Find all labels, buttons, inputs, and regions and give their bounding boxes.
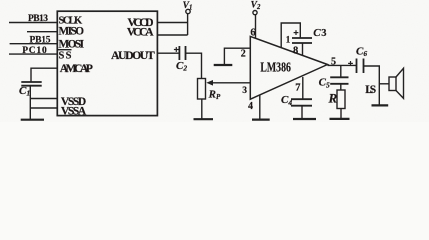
loudspeaker LS [389,77,396,91]
svg-text:1: 1 [286,35,291,45]
svg-text:C: C [313,27,321,39]
op-amp LM386 triangle [250,36,327,99]
IC U1 box [57,11,157,115]
wire VCCD [157,22,187,24]
svg-text:LS: LS [365,84,376,96]
wire pin 7 to C4 [302,77,304,99]
wire AUDOUT to C2 [157,52,179,54]
wire R to ground [340,109,342,119]
svg-text:3: 3 [242,86,247,96]
potentiometer Rp body [198,79,206,100]
terminal V1 [186,9,190,13]
svg-text:AUDOUT: AUDOUT [111,48,155,62]
plus sign of C3 [294,30,299,35]
svg-text:MISO: MISO [59,25,85,37]
svg-text:AMCAP: AMCAP [60,62,93,75]
wire C1 bottom to ground [29,86,31,120]
svg-text:4: 4 [248,101,253,112]
ground (pin 4) [252,118,270,120]
wire PB13 to SCLK [9,22,57,24]
capacitor C5 [330,77,348,84]
svg-text:R: R [328,91,338,106]
wire PB15 to MOSI [10,43,58,45]
wire output pin 5 [328,64,357,66]
capacitor C2 [179,46,185,60]
terminal V2 [253,11,257,15]
capacitor C4 [291,99,312,106]
ground (speaker) [372,104,389,106]
wire junction to C5 [340,65,342,77]
resistor R body [337,90,345,109]
SS overline [57,49,71,51]
wire C2 to Rp [186,53,202,78]
capacitor C1 [21,82,41,86]
svg-text:8: 8 [293,46,298,57]
svg-text:VSSA: VSSA [61,105,87,117]
capacitor C6 [357,59,364,74]
ground (C4) [293,118,316,120]
svg-text:VCCA: VCCA [127,27,154,39]
wire stub to speaker [379,83,389,85]
ground (R) [330,118,350,120]
svg-text:3: 3 [321,28,326,39]
wire to V1 terminal [187,14,189,35]
wire pin 8 to C3 [302,43,304,56]
wire PC10 to SS [9,53,57,55]
wire C5 to R [340,84,342,90]
wire VCCA [157,34,187,36]
svg-text:6: 6 [250,27,255,38]
plus sign of C2 [174,47,179,52]
ground (analog) [21,119,44,121]
wire AMCAP to C1 [31,68,57,82]
svg-text:7: 7 [295,82,300,93]
wire pin 6 to V2 [255,15,257,39]
plus sign of C6 [348,61,353,66]
wire VSSA [30,107,57,109]
svg-text:2: 2 [241,49,246,60]
capacitor C3 [292,38,312,43]
ground (Rp) [194,118,214,120]
svg-text:SS: SS [59,51,72,62]
wire C4 to ground [301,106,303,119]
svg-text:MOSI: MOSI [59,38,85,50]
Rp wiper arrow / wire to pin 3 [209,82,250,84]
wire pin 2 to ground [224,48,250,65]
wire MISO [27,31,57,33]
wire VSSD [30,98,57,100]
svg-text:LM386: LM386 [260,60,291,75]
wire Rp to ground [201,99,203,119]
ground (pin 2) [214,64,233,66]
wire pin 1 to C3 [281,23,300,48]
wire C6 to loudspeaker [364,66,380,105]
wire pin 4 to ground [259,95,261,120]
